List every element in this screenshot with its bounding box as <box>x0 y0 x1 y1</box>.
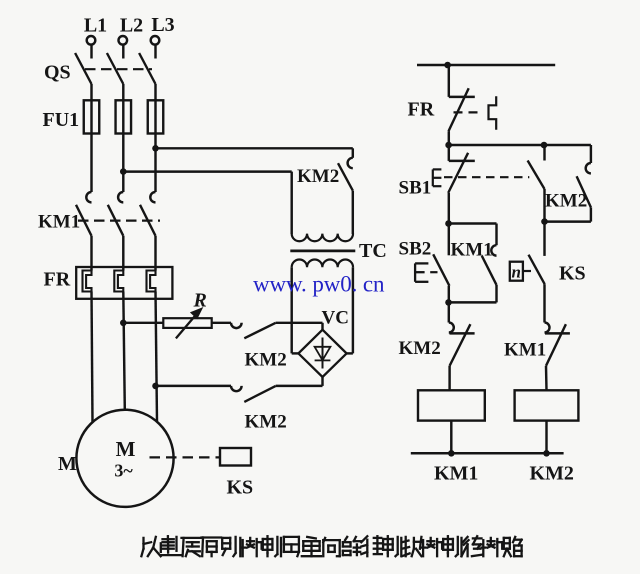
svg-text:KM2: KM2 <box>545 191 587 212</box>
svg-text:KM2: KM2 <box>297 166 339 187</box>
svg-text:TC: TC <box>359 240 387 262</box>
svg-text:KM2: KM2 <box>530 463 574 485</box>
svg-text:L2: L2 <box>120 15 143 37</box>
svg-text:n: n <box>511 263 520 282</box>
svg-text:3~: 3~ <box>114 461 133 481</box>
svg-text:KM2: KM2 <box>245 412 287 433</box>
svg-text:L1: L1 <box>84 15 107 37</box>
svg-text:SB2: SB2 <box>399 239 432 260</box>
svg-text:R: R <box>193 290 207 312</box>
svg-text:KM2: KM2 <box>399 338 441 359</box>
svg-text:L3: L3 <box>151 14 174 36</box>
svg-text:M: M <box>116 437 136 461</box>
svg-text:KM1: KM1 <box>38 212 80 233</box>
svg-text:M: M <box>58 453 77 475</box>
svg-text:KM2: KM2 <box>245 350 287 371</box>
svg-text:FR: FR <box>44 269 71 291</box>
svg-text:www. pw0. cn: www. pw0. cn <box>253 272 385 297</box>
svg-text:FR: FR <box>408 99 435 121</box>
svg-text:FU1: FU1 <box>43 109 80 131</box>
svg-text:KS: KS <box>227 477 254 499</box>
svg-text:KS: KS <box>559 263 586 285</box>
svg-text:VC: VC <box>322 308 349 329</box>
svg-text:SB1: SB1 <box>399 178 432 199</box>
svg-text:KM1: KM1 <box>504 340 546 361</box>
svg-text:QS: QS <box>44 62 71 84</box>
svg-text:KM1: KM1 <box>434 463 478 485</box>
svg-text:KM1: KM1 <box>451 240 493 261</box>
